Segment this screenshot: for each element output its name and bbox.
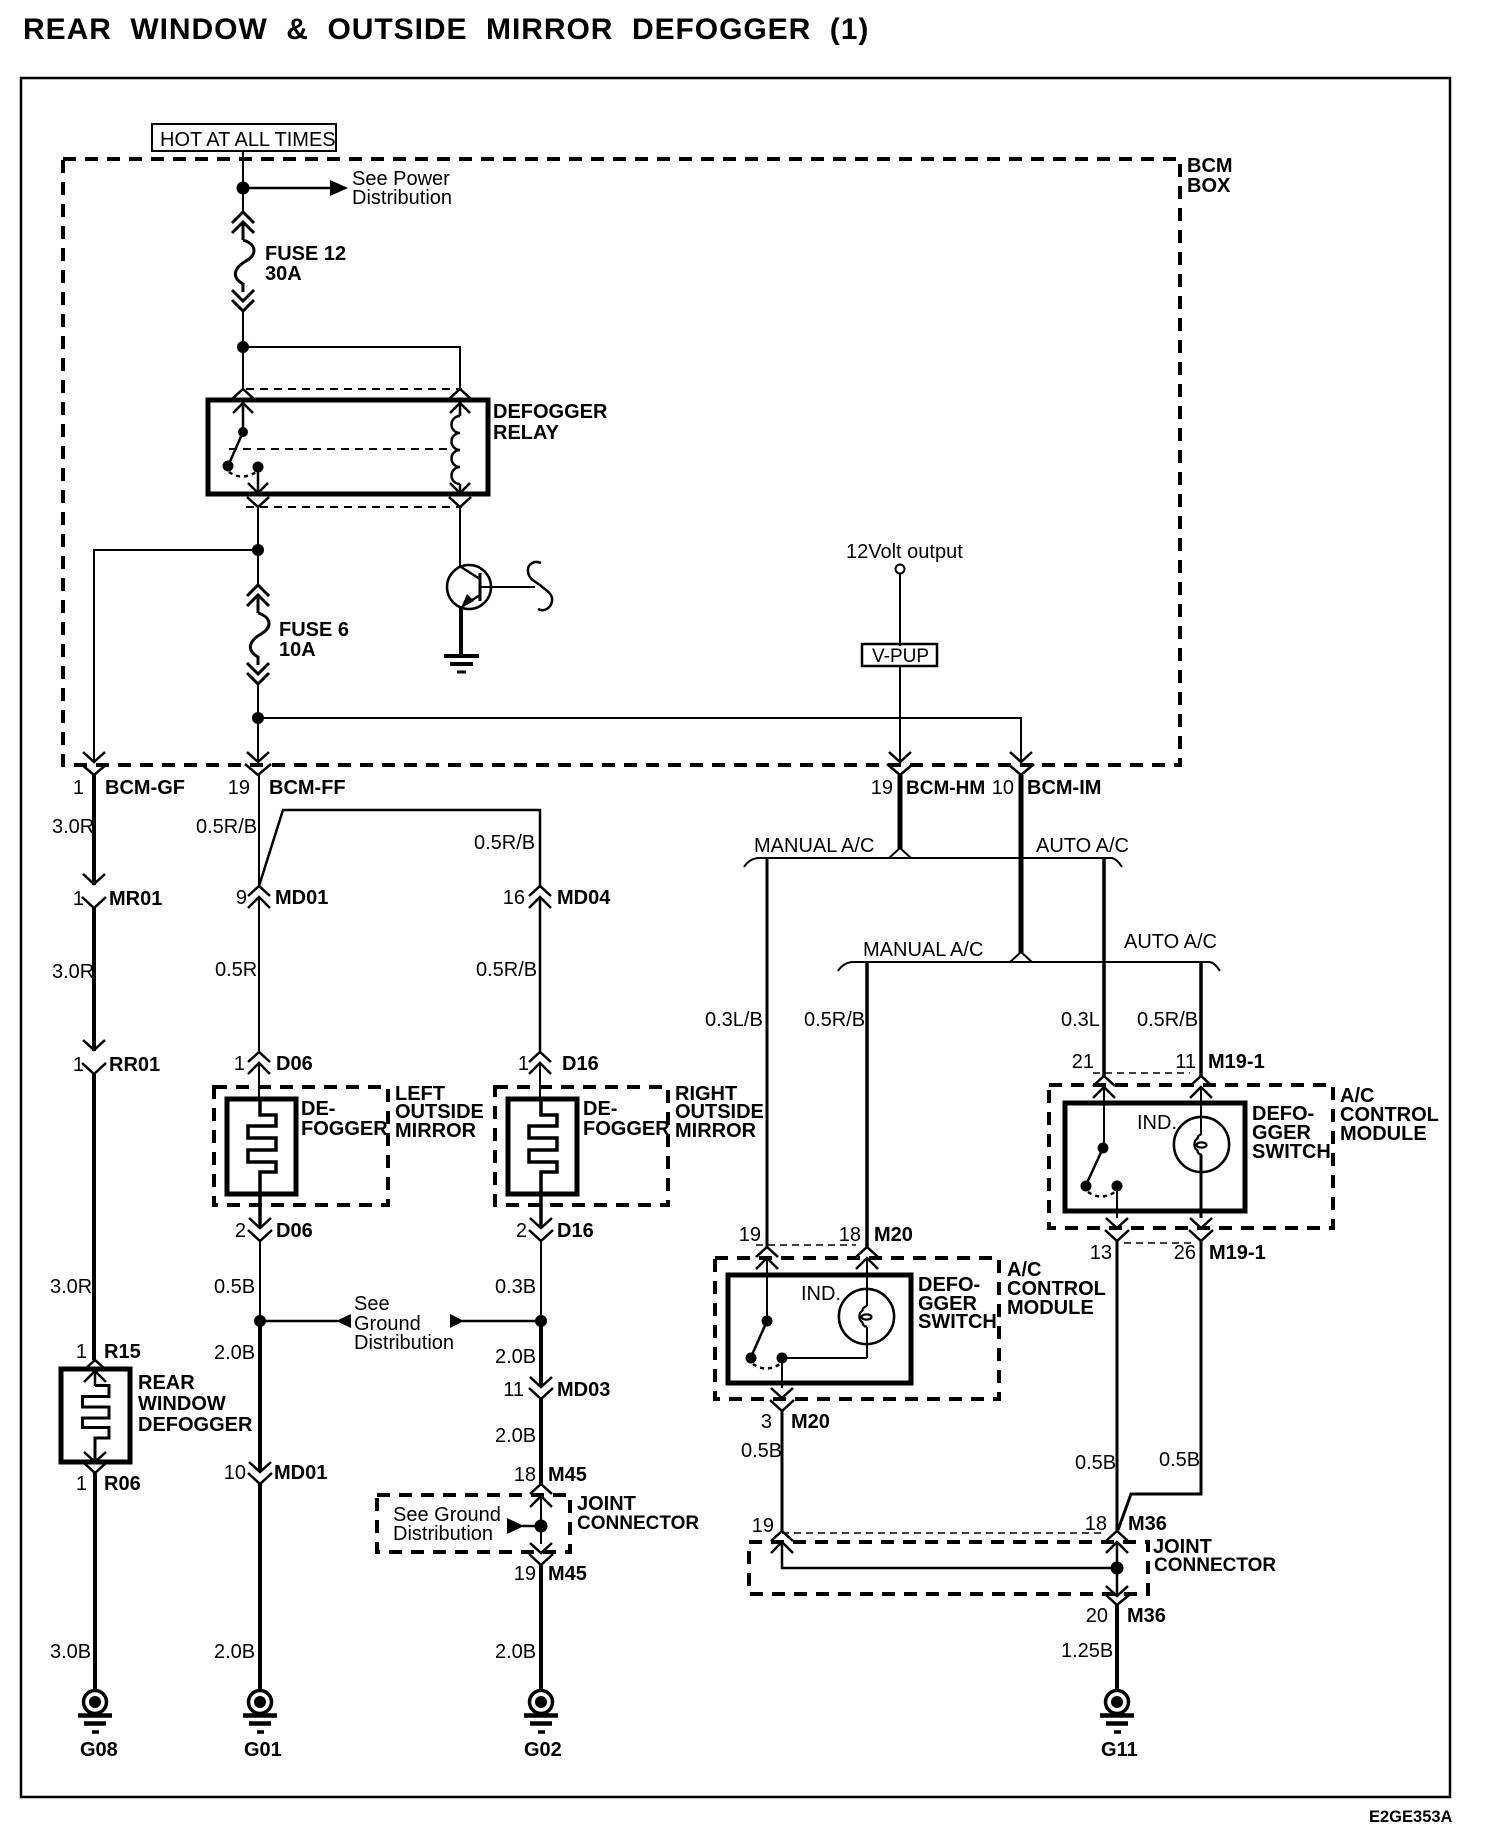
svg-text:19: 19 <box>228 777 250 799</box>
wire 0.3L/B branch <box>766 858 769 1247</box>
connector D06 pin 1 <box>248 1052 270 1074</box>
svg-text:19: 19 <box>752 1515 774 1537</box>
svg-text:G02: G02 <box>524 1739 562 1761</box>
svg-text:M19-1: M19-1 <box>1208 1051 1265 1073</box>
connector MD01 pin 9 <box>248 886 270 908</box>
switch S1 defogger switch manual box <box>728 1274 997 1383</box>
connector D16 pin 2 <box>529 1194 553 1241</box>
svg-text:CONNECTOR: CONNECTOR <box>1154 1555 1276 1576</box>
svg-text:1: 1 <box>234 1053 245 1075</box>
svg-text:BOX: BOX <box>1187 175 1231 197</box>
svg-text:FUSE 6: FUSE 6 <box>279 619 349 641</box>
svg-text:13: 13 <box>1090 1242 1112 1264</box>
fuse FUSE 12 30A <box>232 212 254 311</box>
svg-text:11: 11 <box>503 1379 524 1401</box>
wire 1.25B M36 to G11 <box>1115 1605 1119 1691</box>
node manual/auto split 2 <box>1010 952 1032 962</box>
svg-text:M36: M36 <box>1128 1513 1167 1535</box>
svg-text:D16: D16 <box>557 1220 594 1242</box>
wire 0.5R/B MD04 to D16 <box>539 897 542 1052</box>
svg-text:10: 10 <box>224 1462 246 1484</box>
switch contact manual <box>746 1316 788 1369</box>
connector M19-1 body dashed <box>1093 1072 1190 1074</box>
wire see power distribution <box>243 187 331 190</box>
connector M36 pin 19 <box>771 1531 793 1553</box>
svg-text:10: 10 <box>992 777 1014 799</box>
svg-text:1: 1 <box>76 1473 87 1495</box>
wire 0.5R/B BCM-FF to MD01 <box>258 775 260 886</box>
svg-text:AUTO A/C: AUTO A/C <box>1036 835 1129 857</box>
wire auto switch out <box>1116 1186 1118 1218</box>
pin 19 BCM-HM exit connector <box>887 752 913 775</box>
switch S2 defogger switch auto box <box>1065 1103 1331 1211</box>
connector MR01 pin 1 <box>82 874 106 908</box>
svg-text:2.0B: 2.0B <box>495 1641 536 1663</box>
wire 2.0B M45 to G02 <box>539 1565 543 1691</box>
svg-text:DEFOGGER: DEFOGGER <box>138 1414 253 1436</box>
svg-text:11: 11 <box>1175 1051 1196 1073</box>
svg-text:2.0B: 2.0B <box>495 1346 536 1368</box>
wire V-PUP to BCM-HM <box>899 666 901 762</box>
wire 0.5R MD01 to D06 <box>258 897 260 1052</box>
wire joint connector bus <box>782 1542 1117 1568</box>
wire 0.5B D06 to junction <box>259 1241 261 1322</box>
wire 0.5B pin26 to M36 <box>1118 1241 1201 1530</box>
connector M20 pin 19 <box>756 1247 778 1269</box>
pin relay 85 bottom right connector <box>449 483 471 507</box>
connector MD04 pin 16 <box>529 886 551 908</box>
svg-text:21: 21 <box>1072 1051 1094 1073</box>
ground G02 <box>524 1691 562 1762</box>
node manual/auto split 1 <box>889 848 911 858</box>
label HOT AT ALL TIMES <box>152 124 336 151</box>
left mirror defogger element <box>227 1098 388 1194</box>
svg-text:MD03: MD03 <box>557 1379 610 1401</box>
wire bus manual/auto 2 <box>838 962 1220 971</box>
svg-text:D16: D16 <box>562 1053 599 1075</box>
svg-text:0.3B: 0.3B <box>495 1276 536 1298</box>
svg-text:0.5B: 0.5B <box>741 1440 782 1462</box>
svg-text:0.5B: 0.5B <box>214 1276 255 1298</box>
connector D06 pin 2 <box>248 1194 272 1241</box>
wire lamp to switch out <box>782 1357 867 1359</box>
svg-text:D06: D06 <box>276 1053 313 1075</box>
lamp IND auto <box>1174 1087 1229 1218</box>
wire into auto switch <box>1103 1087 1105 1148</box>
ground G11 <box>1100 1691 1138 1762</box>
svg-text:1: 1 <box>73 888 84 910</box>
wire bus manual/auto 1 <box>744 858 1122 867</box>
svg-text:FOGGER: FOGGER <box>301 1118 388 1140</box>
connector M36 body dashed <box>782 1532 1106 1534</box>
pin 19 BCM-FF exit connector <box>245 752 271 775</box>
svg-text:2.0B: 2.0B <box>495 1425 536 1447</box>
svg-text:IND.: IND. <box>1137 1112 1177 1134</box>
transistor Q1 <box>447 507 535 609</box>
svg-text:0.5R/B: 0.5R/B <box>1137 1009 1198 1031</box>
relay internal dashed line <box>229 448 452 450</box>
svg-text:BCM-GF: BCM-GF <box>105 777 185 799</box>
svg-text:MD01: MD01 <box>274 1462 327 1484</box>
node right ground distribution junction <box>535 1315 547 1327</box>
svg-text:REAR: REAR <box>138 1372 195 1394</box>
svg-text:20: 20 <box>1086 1605 1108 1627</box>
wire 2.0B junction to MD01 pin10 <box>258 1321 262 1472</box>
wire 3.0R BCM-GF to MR01 <box>92 775 96 885</box>
ground G08 <box>78 1691 118 1762</box>
wire fuse12 to relay <box>242 311 244 389</box>
svg-text:Distribution: Distribution <box>354 1332 454 1354</box>
svg-text:M19-1: M19-1 <box>1209 1242 1266 1264</box>
BCM BOX dashed enclosure <box>63 155 1233 765</box>
svg-text:9: 9 <box>236 887 247 909</box>
lamp IND manual <box>839 1258 894 1358</box>
coil pigtail at transistor base <box>528 562 552 610</box>
wire 0.5B pin13 to M36 <box>1116 1241 1119 1532</box>
wire transistor emitter to ground <box>459 606 463 654</box>
svg-text:DE-: DE- <box>583 1098 617 1120</box>
svg-text:0.5B: 0.5B <box>1075 1452 1116 1474</box>
svg-text:3.0R: 3.0R <box>52 961 94 983</box>
svg-text:16: 16 <box>503 887 525 909</box>
wire to BCM-GF branch <box>94 550 258 762</box>
wire 2.0B junction to MD03 <box>539 1321 543 1387</box>
svg-text:2: 2 <box>235 1220 246 1242</box>
wire 0.5B M20 to M36 <box>781 1411 784 1532</box>
svg-text:R15: R15 <box>104 1341 141 1363</box>
wire 2.0B MD01 to G01 <box>258 1484 262 1691</box>
connector MD03 pin 11 <box>529 1377 553 1399</box>
block V-PUP <box>862 644 937 667</box>
svg-text:19: 19 <box>739 1224 761 1246</box>
connector MD01 pin 10 <box>248 1462 272 1484</box>
svg-text:SWITCH: SWITCH <box>1252 1141 1331 1163</box>
svg-text:0.3L: 0.3L <box>1061 1009 1100 1031</box>
svg-text:MIRROR: MIRROR <box>675 1120 757 1142</box>
svg-text:3.0B: 3.0B <box>50 1641 91 1663</box>
wire BCM-HM heavy feed <box>898 775 903 849</box>
pin relay 87 bottom left connector <box>247 472 269 507</box>
connector RR01 pin 1 <box>82 1040 106 1074</box>
svg-text:HOT AT ALL TIMES: HOT AT ALL TIMES <box>160 129 336 151</box>
defogger relay dashed pin line top <box>246 388 462 390</box>
svg-text:MD01: MD01 <box>275 887 328 909</box>
ground G01 <box>243 1691 282 1762</box>
svg-text:MODULE: MODULE <box>1007 1297 1094 1319</box>
svg-text:19: 19 <box>871 777 893 799</box>
svg-text:R06: R06 <box>104 1473 141 1495</box>
connector R15 pin 1 <box>84 1360 106 1382</box>
svg-text:1: 1 <box>76 1341 87 1363</box>
wire 2.0B MD03 to M45 <box>539 1399 543 1484</box>
svg-text:MODULE: MODULE <box>1340 1123 1427 1145</box>
svg-text:1: 1 <box>73 777 84 799</box>
svg-text:See: See <box>354 1293 390 1315</box>
svg-text:12Volt output: 12Volt output <box>846 541 963 563</box>
svg-text:1: 1 <box>73 1054 84 1076</box>
svg-text:0.5R/B: 0.5R/B <box>196 816 257 838</box>
wire to BCM-IM <box>258 718 1021 762</box>
rear window defogger element <box>61 1369 253 1462</box>
wire see ground distribution left <box>260 1320 338 1323</box>
joint connector G02 dashed box <box>377 1493 699 1552</box>
wire 0.3L branch <box>1102 858 1106 1076</box>
svg-text:SWITCH: SWITCH <box>918 1311 997 1333</box>
svg-text:D06: D06 <box>276 1220 313 1242</box>
svg-text:RELAY: RELAY <box>493 422 560 444</box>
svg-text:MANUAL A/C: MANUAL A/C <box>754 835 874 857</box>
svg-text:2: 2 <box>516 1220 527 1242</box>
svg-text:Distribution: Distribution <box>393 1523 493 1545</box>
svg-text:DE-: DE- <box>301 1098 335 1120</box>
wire 3.0B R06 to G08 <box>93 1473 97 1691</box>
wire hot feed down from HOT AT ALL TIMES <box>242 151 244 212</box>
connector M19-1 body dashed 2 <box>1124 1242 1196 1244</box>
right outside mirror dashed box <box>495 1083 764 1205</box>
wire see ground distribution right <box>450 1314 464 1328</box>
svg-text:30A: 30A <box>265 263 302 285</box>
svg-text:MANUAL A/C: MANUAL A/C <box>863 939 983 961</box>
connector M45 pin 19 <box>529 1543 553 1565</box>
svg-text:0.5R: 0.5R <box>215 959 257 981</box>
svg-text:E2GE353A: E2GE353A <box>1369 1808 1453 1826</box>
node relay out junction <box>252 544 264 556</box>
svg-text:0.5R/B: 0.5R/B <box>474 832 535 854</box>
svg-text:3.0R: 3.0R <box>50 1276 92 1298</box>
svg-text:FUSE 12: FUSE 12 <box>265 243 346 265</box>
svg-text:G08: G08 <box>80 1739 118 1761</box>
pin relay 30 top left connector <box>232 389 254 428</box>
svg-text:3: 3 <box>761 1411 772 1433</box>
svg-text:JOINT: JOINT <box>577 1493 636 1515</box>
svg-text:BCM-FF: BCM-FF <box>269 777 346 799</box>
svg-text:19: 19 <box>514 1563 536 1585</box>
connector M20 pin 3 <box>770 1388 794 1411</box>
svg-text:WINDOW: WINDOW <box>138 1393 226 1415</box>
svg-text:RR01: RR01 <box>109 1054 160 1076</box>
svg-text:0.3L/B: 0.3L/B <box>705 1009 763 1031</box>
svg-text:MIRROR: MIRROR <box>395 1120 477 1142</box>
pin relay 86 top right connector <box>449 389 471 415</box>
wire relay out down <box>257 507 259 585</box>
connector M45 pin 18 <box>530 1484 552 1507</box>
wire 3.0R RR01 to R15 <box>92 1074 96 1360</box>
wire into manual switch <box>766 1258 768 1321</box>
connector M19-1 pin 11 <box>1190 1076 1212 1098</box>
svg-text:M36: M36 <box>1127 1605 1166 1627</box>
pin 1 BCM-GF exit connector <box>81 752 107 775</box>
svg-text:26: 26 <box>1174 1242 1196 1264</box>
svg-text:18: 18 <box>514 1464 536 1486</box>
svg-text:0.5R/B: 0.5R/B <box>476 959 537 981</box>
defogger relay dashed pin line bottom <box>246 506 462 508</box>
node power junction <box>237 182 250 195</box>
wire through joint connector <box>540 1496 542 1544</box>
connector R06 pin 1 <box>84 1452 106 1473</box>
wire 12V to V-PUP <box>899 573 901 646</box>
svg-text:18: 18 <box>1085 1513 1107 1535</box>
wire branch to MD04 <box>259 810 540 886</box>
node joint connector junction <box>535 1520 548 1533</box>
wire 0.5R/B manual branch <box>865 962 869 1247</box>
pin 10 BCM-IM exit connector <box>1008 752 1034 775</box>
right mirror defogger element <box>508 1098 670 1194</box>
wire to relay coil branch <box>243 347 460 389</box>
connector D16 pin 1 <box>529 1052 551 1074</box>
svg-text:3.0R: 3.0R <box>52 816 94 838</box>
svg-text:M20: M20 <box>791 1411 830 1433</box>
svg-text:2.0B: 2.0B <box>214 1641 255 1663</box>
connector M20 pin 18 <box>856 1247 878 1269</box>
svg-text:18: 18 <box>839 1224 861 1246</box>
svg-text:FOGGER: FOGGER <box>583 1118 670 1140</box>
svg-text:M45: M45 <box>548 1563 587 1585</box>
svg-text:MR01: MR01 <box>109 888 162 910</box>
svg-text:G01: G01 <box>244 1739 282 1761</box>
svg-text:BCM: BCM <box>1187 155 1233 177</box>
svg-text:MD04: MD04 <box>557 887 611 909</box>
joint connector G11 dashed box <box>749 1536 1276 1594</box>
svg-text:IND.: IND. <box>801 1283 841 1305</box>
wire BCM-IM heavy feed <box>1019 775 1024 953</box>
svg-text:0.5R/B: 0.5R/B <box>804 1009 865 1031</box>
ground chassis below transistor <box>444 656 479 672</box>
svg-text:M45: M45 <box>548 1464 587 1486</box>
wire 3.0R MR01 to RR01 <box>92 908 96 1051</box>
svg-text:REAR WINDOW & OUTSIDE MIRR: REAR WINDOW & OUTSIDE MIRROR DEFOGGER (1… <box>23 13 869 46</box>
node left ground distribution junction <box>254 1315 266 1327</box>
relay switch contact <box>223 427 264 477</box>
connector M36 pin 20 <box>1106 1586 1129 1605</box>
svg-text:G11: G11 <box>1101 1739 1138 1761</box>
svg-text:2.0B: 2.0B <box>214 1342 255 1364</box>
wire 0.3B D16 to junction <box>540 1241 542 1322</box>
svg-text:Distribution: Distribution <box>352 187 452 209</box>
node BCM-IM feed junction <box>252 712 264 724</box>
fuse FUSE 6 10A <box>247 585 269 684</box>
switch contact auto <box>1081 1143 1123 1197</box>
wire D06 into left mirror <box>258 1063 260 1100</box>
node joint connector junction G11 <box>1111 1562 1124 1575</box>
A/C control module auto dashed box <box>1049 1085 1439 1228</box>
connector M20 body dashed <box>756 1244 856 1246</box>
svg-text:BCM-HM: BCM-HM <box>906 778 985 799</box>
connector M19-1 pin 13 <box>1105 1218 1129 1241</box>
relay coil <box>452 413 460 484</box>
A/C control module manual dashed box <box>715 1258 1106 1399</box>
connector M19-1 pin 21 <box>1093 1076 1115 1098</box>
node relay feed junction <box>237 341 249 353</box>
wire fuse6 down <box>257 684 259 762</box>
svg-text:M20: M20 <box>874 1224 913 1246</box>
svg-text:1.25B: 1.25B <box>1061 1640 1113 1662</box>
svg-text:CONNECTOR: CONNECTOR <box>577 1513 699 1534</box>
svg-text:AUTO A/C: AUTO A/C <box>1124 931 1217 953</box>
svg-text:BCM-IM: BCM-IM <box>1027 777 1101 799</box>
wire 0.5R/B auto branch <box>1199 962 1203 1076</box>
wire manual switch out <box>781 1358 783 1388</box>
svg-text:V-PUP: V-PUP <box>872 646 929 667</box>
connector M19-1 pin 26 <box>1189 1218 1213 1241</box>
left outside mirror dashed box <box>214 1083 484 1205</box>
relay U1 DEFOGGER RELAY box <box>208 400 488 494</box>
svg-text:DEFOGGER: DEFOGGER <box>493 401 608 423</box>
svg-text:1: 1 <box>518 1053 529 1075</box>
svg-text:0.5B: 0.5B <box>1159 1449 1200 1471</box>
svg-text:10A: 10A <box>279 639 316 661</box>
connector M36 pin 18 <box>1106 1531 1128 1553</box>
wire D16 into right mirror <box>539 1063 541 1100</box>
